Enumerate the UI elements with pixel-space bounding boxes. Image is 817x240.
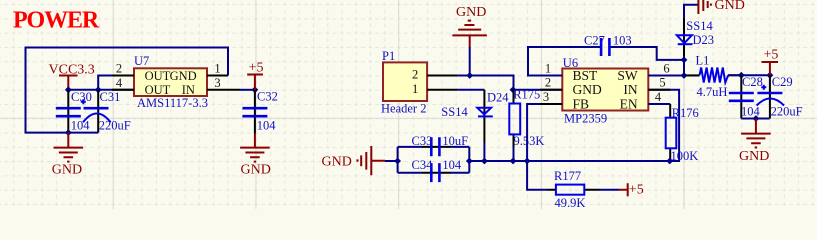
svg-text:+5: +5	[629, 183, 644, 198]
junction SW	[681, 72, 688, 79]
svg-text:IN: IN	[182, 83, 195, 97]
svg-text:GND: GND	[241, 163, 271, 178]
svg-text:5: 5	[659, 76, 665, 90]
capacitor C28 (104)	[729, 75, 763, 119]
ground GND below C32	[240, 134, 271, 178]
svg-text:10uF: 10uF	[442, 134, 468, 148]
ground GND (top right, rotated)	[684, 0, 745, 18]
svg-text:FB: FB	[573, 96, 590, 111]
wire ground loop from U7 pin1	[26, 48, 229, 133]
junction right bar	[466, 158, 473, 165]
pin 4 of U6	[648, 90, 669, 104]
svg-text:1: 1	[545, 61, 551, 75]
capacitor C31 (polarized 220uF)	[81, 90, 131, 133]
wire P1 pin2 to U6 GND	[457, 76, 562, 90]
pin 2 of U7	[112, 62, 134, 76]
junction R176 bottom	[666, 158, 673, 165]
pin 1 of P1	[412, 82, 457, 96]
junction left bar	[394, 158, 401, 165]
capacitor C30	[56, 90, 92, 133]
svg-text:D24: D24	[487, 91, 509, 105]
junction R177 branch	[524, 158, 531, 165]
wire R177 to +5	[599, 189, 619, 191]
svg-text:GND: GND	[456, 5, 486, 20]
svg-text:EN: EN	[620, 96, 638, 111]
svg-text:GND: GND	[573, 82, 602, 97]
svg-text:C34: C34	[412, 158, 434, 172]
ground GND (right)	[739, 119, 771, 164]
regulator U7 AMS1117-3.3	[134, 54, 208, 110]
wire C28/C29 bottoms	[741, 118, 769, 120]
svg-text:C31: C31	[100, 90, 121, 104]
wire GND to C33/C34 left bar	[385, 160, 398, 162]
svg-text:100K: 100K	[671, 149, 699, 163]
svg-text:SS14: SS14	[441, 105, 468, 119]
ground GND below C30	[52, 133, 83, 178]
svg-text:4.7uH: 4.7uH	[697, 85, 728, 99]
power port +5 (bottom)	[619, 183, 644, 198]
junction D23 / C27	[681, 57, 688, 64]
svg-text:3: 3	[543, 90, 549, 104]
wire P1 pin1 to D24	[457, 89, 484, 91]
svg-text:GND: GND	[52, 163, 82, 178]
svg-text:103: 103	[613, 33, 632, 47]
junction at C32 top	[252, 86, 259, 93]
junction C29 top	[767, 72, 774, 79]
svg-text:2: 2	[116, 62, 122, 76]
svg-text:U7: U7	[134, 54, 149, 68]
svg-text:POWER: POWER	[13, 8, 100, 34]
svg-text:GND: GND	[322, 154, 352, 169]
ground GND (top middle, flipped)	[452, 5, 487, 76]
inductor L1 (4.7uH)	[686, 54, 742, 99]
svg-text:C29: C29	[772, 75, 793, 89]
svg-text:2: 2	[545, 76, 551, 90]
svg-text:6: 6	[663, 61, 669, 75]
svg-text:OUT: OUT	[145, 83, 171, 97]
svg-text:104: 104	[71, 118, 91, 132]
svg-text:C28: C28	[742, 75, 763, 89]
resistor R176 (100K)	[648, 104, 698, 163]
svg-text:C32: C32	[257, 90, 278, 104]
svg-text:+5: +5	[764, 47, 779, 62]
junction D24 bottom	[481, 158, 488, 165]
wire SW node	[648, 75, 699, 77]
svg-text:AMS1117-3.3: AMS1117-3.3	[137, 96, 208, 110]
svg-text:GND: GND	[715, 0, 745, 13]
junction C28 top	[738, 72, 745, 79]
wire U7 pin2 jog	[98, 76, 134, 90]
svg-text:L1: L1	[696, 54, 710, 68]
svg-text:C27: C27	[584, 33, 605, 47]
pin 2 of U6	[540, 76, 562, 90]
junction R175 top	[510, 86, 517, 93]
pin 6 of U6	[648, 61, 670, 75]
svg-text:BST: BST	[573, 68, 599, 83]
svg-text:4: 4	[655, 90, 662, 104]
capacitor C32	[242, 90, 277, 134]
wire U7 pin3 to +5	[240, 89, 255, 91]
pin 1 of U7	[207, 62, 228, 76]
diode D24 SS14	[441, 90, 509, 161]
junction at C31 top	[95, 86, 102, 93]
capacitor C34 (104)	[398, 158, 470, 182]
svg-text:GND: GND	[170, 69, 197, 83]
connector P1 Header 2	[381, 49, 427, 116]
svg-text:1: 1	[214, 62, 220, 76]
capacitor C29 (polarized 220uF)	[757, 75, 803, 119]
svg-text:2: 2	[412, 68, 418, 82]
ground GND (middle left, rotated)	[322, 146, 386, 175]
svg-text:+5: +5	[249, 60, 264, 75]
svg-text:3: 3	[214, 76, 220, 90]
junction at VCC3.3 / C30	[65, 86, 72, 93]
svg-text:SW: SW	[617, 68, 638, 83]
pin 2 of P1	[412, 68, 457, 82]
regulator U6 MP2359	[562, 56, 648, 126]
svg-text:104: 104	[741, 105, 761, 119]
resistor R175 (9.53K)	[509, 76, 544, 162]
pin 3 of U7	[207, 76, 240, 90]
node C33/C34 left bar	[397, 147, 399, 173]
wire FB pin3 down to rail	[527, 104, 562, 161]
power port VCC3.3	[49, 63, 95, 90]
wire L1 to +5	[728, 74, 770, 76]
node C33/C34 right bar	[468, 147, 470, 173]
wire BST bootstrap loop	[528, 47, 684, 76]
pin 5 of U6	[648, 76, 670, 90]
svg-text:9.53K: 9.53K	[514, 134, 545, 148]
svg-text:104: 104	[257, 119, 277, 133]
junction GND stem	[753, 115, 760, 122]
wire main rail to U6 pin5	[469, 90, 679, 161]
svg-text:Header 2: Header 2	[381, 102, 426, 116]
svg-text:49.9K: 49.9K	[555, 196, 586, 209]
svg-text:R176: R176	[672, 106, 699, 120]
svg-text:R177: R177	[554, 169, 581, 183]
resistor R177 (49.9K)	[547, 169, 599, 210]
power port +5 (left)	[247, 60, 263, 90]
pin 1 of U6	[540, 61, 562, 75]
svg-text:P1: P1	[382, 49, 395, 63]
svg-text:D23: D23	[693, 33, 715, 47]
svg-text:1: 1	[412, 82, 418, 96]
pin 4 of U7	[112, 76, 134, 90]
svg-text:MP2359: MP2359	[564, 112, 607, 126]
svg-text:OUT: OUT	[145, 69, 171, 83]
svg-text:IN: IN	[623, 82, 637, 97]
capacitor C27 (103)	[584, 33, 632, 56]
pin 3 of U6	[540, 90, 562, 104]
wire VCC3.3 rail to U7 pin4	[68, 89, 134, 91]
diode D23 SS14	[677, 18, 714, 76]
svg-text:C33: C33	[412, 134, 433, 148]
svg-text:SS14: SS14	[686, 19, 713, 33]
svg-text:GND: GND	[739, 149, 769, 164]
junction GND drop	[466, 72, 473, 79]
svg-text:R175: R175	[513, 88, 540, 102]
power port +5 (right)	[762, 47, 779, 75]
svg-text:220uF: 220uF	[99, 118, 131, 132]
svg-text:220uF: 220uF	[771, 105, 803, 119]
svg-text:104: 104	[442, 158, 462, 172]
junction R175 bottom	[510, 158, 517, 165]
svg-text:4: 4	[116, 76, 123, 90]
junction at C30 bottom	[65, 129, 72, 136]
capacitor C33 (10uF)	[398, 134, 470, 157]
wire rail down to R177	[527, 161, 547, 190]
